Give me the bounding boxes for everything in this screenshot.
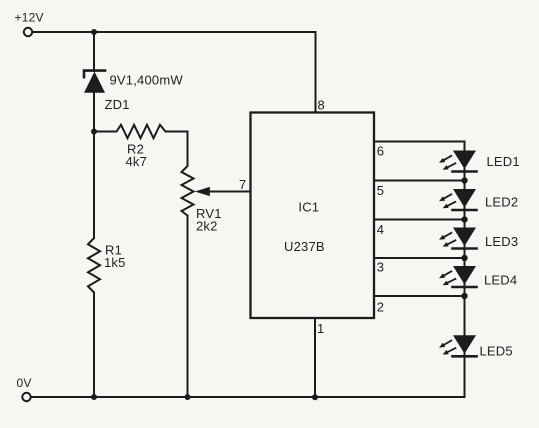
label 0V xyxy=(17,376,32,390)
svg-text:8: 8 xyxy=(318,97,325,112)
wire R1 bottom to 0V rail xyxy=(93,293,95,398)
terminal 0V xyxy=(22,393,30,401)
LED LED5 xyxy=(439,335,476,356)
wire pin 5 xyxy=(374,180,464,182)
label LED2 xyxy=(485,195,518,210)
wire 0V bottom rail xyxy=(31,396,465,398)
junction LED chain at y=296 xyxy=(461,293,467,299)
wire pin 4 xyxy=(374,219,464,221)
svg-text:LED4: LED4 xyxy=(484,273,517,288)
svg-text:IC1: IC1 xyxy=(298,199,319,214)
LED LED4 xyxy=(439,266,476,287)
LED LED1 xyxy=(439,151,476,172)
wire pin 1 to 0V rail xyxy=(314,318,316,397)
label LED5 xyxy=(480,344,513,359)
junction 0V rail / R1 xyxy=(91,394,97,400)
label IC1 xyxy=(298,199,319,214)
pin number 8 xyxy=(318,97,325,112)
label R2 xyxy=(127,142,144,157)
pin number 7 xyxy=(239,177,246,192)
svg-text:LED2: LED2 xyxy=(485,195,518,210)
junction top rail / zener branch xyxy=(91,29,97,35)
value 2k2 xyxy=(196,219,218,234)
label LED1 xyxy=(487,154,520,169)
svg-text:2k2: 2k2 xyxy=(196,219,218,234)
svg-text:ZD1: ZD1 xyxy=(105,97,130,112)
value 1k5 xyxy=(104,255,126,270)
terminal +12V xyxy=(24,28,32,36)
svg-text:5: 5 xyxy=(377,183,384,198)
label LED3 xyxy=(485,234,518,249)
junction zener / R2 node xyxy=(91,129,97,135)
wire pin 6 xyxy=(374,141,464,143)
wire pin 3 xyxy=(374,257,464,259)
pin number 4 xyxy=(377,222,384,237)
label RV1 xyxy=(196,206,222,221)
label LED4 xyxy=(484,273,517,288)
svg-text:1: 1 xyxy=(317,321,324,336)
value 4k7 xyxy=(126,154,148,169)
junction LED chain at y=219.5 xyxy=(461,216,467,222)
wire +12V rail down to zener ZD1 xyxy=(93,32,95,71)
LED LED2 xyxy=(439,189,476,210)
value label 9V1,400mW xyxy=(110,73,184,88)
potentiometer RV1 xyxy=(182,166,194,216)
wire pin 2 xyxy=(374,295,464,297)
svg-text:U237B: U237B xyxy=(284,239,325,254)
svg-text:LED3: LED3 xyxy=(485,234,518,249)
svg-text:LED5: LED5 xyxy=(480,344,513,359)
resistor R2 xyxy=(94,125,188,138)
pin number 2 xyxy=(377,300,384,315)
svg-text:LED1: LED1 xyxy=(487,154,520,169)
label U237B xyxy=(284,239,325,254)
wire LED chain vertical xyxy=(464,142,466,398)
svg-text:+12V: +12V xyxy=(15,10,44,24)
label +12V xyxy=(15,10,44,24)
svg-text:3: 3 xyxy=(377,260,384,275)
label R1 xyxy=(105,243,122,258)
svg-text:6: 6 xyxy=(377,144,384,159)
LED LED3 xyxy=(439,228,476,249)
pin number 1 xyxy=(317,321,324,336)
svg-text:9V1,400mW: 9V1,400mW xyxy=(110,73,184,88)
wire zener to R2 junction and on to R1 xyxy=(93,93,95,238)
wire R2 to RV1 top xyxy=(187,132,189,167)
wire top rail from +12V terminal to pin 8 corner xyxy=(32,31,315,33)
pin number 3 xyxy=(377,260,384,275)
junction LED chain at y=180.5 xyxy=(461,177,467,183)
op-amp IC1 U237B body xyxy=(251,113,375,319)
svg-text:4k7: 4k7 xyxy=(126,154,148,169)
zener diode ZD1 xyxy=(84,71,105,93)
label ZD1 xyxy=(105,97,130,112)
junction 0V rail / RV1 xyxy=(185,394,191,400)
pin number 6 xyxy=(377,144,384,159)
wire pin 7 wiper arrow xyxy=(195,187,251,196)
resistor R1 xyxy=(88,238,100,293)
pin number 5 xyxy=(377,183,384,198)
svg-text:0V: 0V xyxy=(17,376,32,390)
svg-text:2: 2 xyxy=(377,300,384,315)
svg-text:1k5: 1k5 xyxy=(104,255,126,270)
junction LED chain at y=258 xyxy=(461,255,467,261)
svg-text:4: 4 xyxy=(377,222,384,237)
wire RV1 bottom to 0V rail xyxy=(187,216,189,398)
svg-text:7: 7 xyxy=(239,177,246,192)
wire pin 8 drop xyxy=(315,32,317,113)
junction 0V rail / pin 1 xyxy=(312,394,318,400)
